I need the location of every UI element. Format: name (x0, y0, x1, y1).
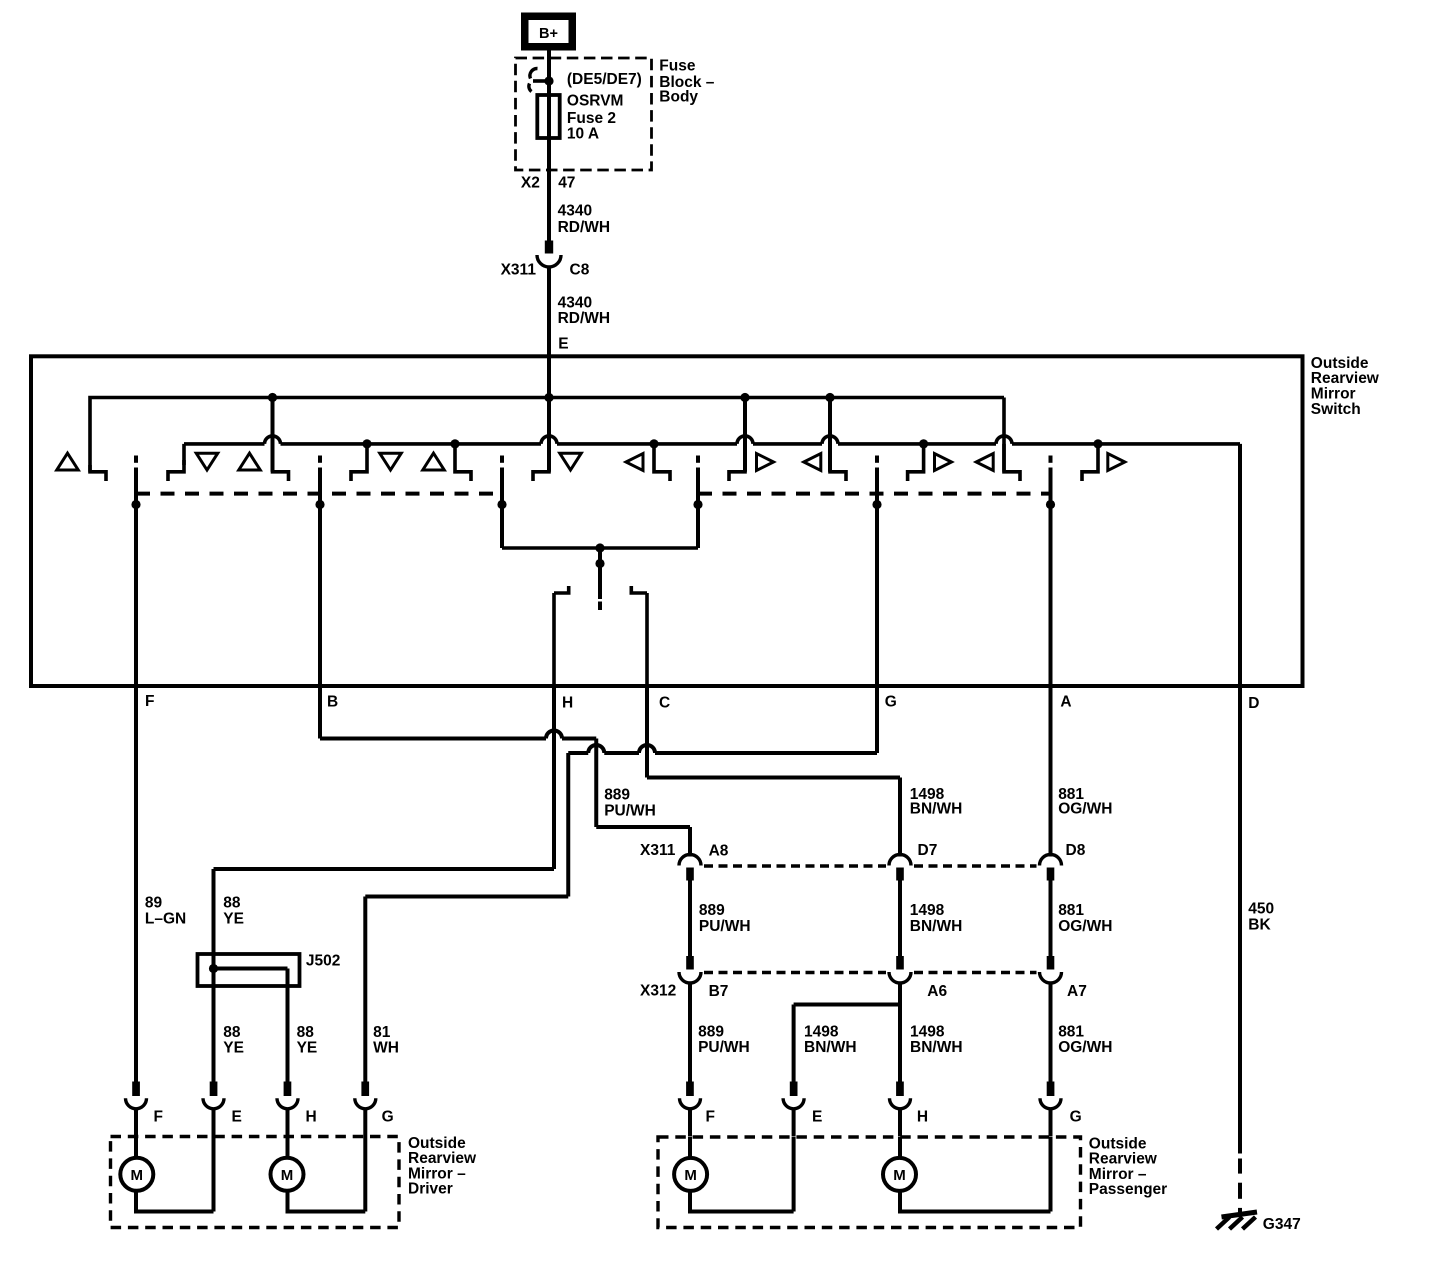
driver mirror pin E (210, 1082, 218, 1097)
driver mirror motor M1 (120, 1158, 153, 1191)
wire 1498 BN/WH D7 to A6 (898, 881, 902, 957)
svg-text:D7: D7 (918, 842, 938, 859)
driver mirror motor M2 (271, 1158, 304, 1191)
svg-text:A: A (1060, 694, 1071, 711)
svg-text:Fuse 2: Fuse 2 (567, 110, 616, 127)
direction triangle up 1 (57, 453, 79, 470)
connector X312 pin A7 (1047, 956, 1055, 970)
svg-text:PU/WH: PU/WH (699, 918, 751, 935)
passenger mirror motor M1 (674, 1158, 707, 1191)
connector X311 pin C8 (545, 241, 553, 254)
svg-text:Passenger: Passenger (1089, 1181, 1167, 1198)
svg-text:C: C (659, 694, 670, 711)
switch wiper stub x698 (696, 456, 700, 463)
junction dot second bus x367 (362, 439, 371, 448)
svg-text:F: F (154, 1108, 163, 1125)
fuse block body dashed box (516, 58, 652, 170)
svg-text:88: 88 (297, 1024, 315, 1041)
mechanical linkage dashed line right (698, 492, 1051, 496)
junction dot top bus x549 node E (544, 393, 553, 402)
connector X311 pin D7 (889, 855, 911, 866)
svg-text:YE: YE (297, 1039, 318, 1056)
connector X312 dashed body (704, 971, 886, 975)
svg-text:88: 88 (223, 895, 241, 912)
direction triangle up 3 (423, 453, 445, 470)
svg-text:F: F (706, 1108, 715, 1125)
svg-text:RD/WH: RD/WH (558, 219, 611, 236)
driver mirror motor 2 circuit (286, 1137, 290, 1158)
ground G347 (1222, 1212, 1258, 1217)
connector X311 pin D8 (1040, 855, 1062, 866)
direction triangle right 1 (757, 454, 774, 471)
svg-text:G: G (382, 1108, 394, 1125)
svg-text:D8: D8 (1066, 842, 1086, 859)
switch contact pin E feed (547, 398, 551, 472)
junction dot top bus x830 (825, 393, 834, 402)
svg-text:10 A: 10 A (567, 126, 599, 143)
svg-text:881: 881 (1058, 902, 1084, 919)
svg-text:889: 889 (698, 1023, 724, 1040)
passenger mirror pin F (686, 1082, 694, 1097)
svg-text:X311: X311 (501, 262, 537, 279)
svg-text:(DE5/DE7): (DE5/DE7) (567, 71, 642, 88)
driver mirror pin G (361, 1082, 369, 1097)
connector X312 pin B7 (686, 956, 694, 970)
svg-text:WH: WH (373, 1039, 399, 1056)
fuse holder clip symbol (530, 68, 538, 78)
switch contact x272 (271, 398, 275, 472)
switch contact x830 (828, 398, 832, 472)
switch contact x745 (743, 398, 747, 472)
wire B+ to fuse (547, 51, 551, 96)
svg-text:G: G (885, 694, 897, 711)
svg-text:889: 889 (699, 902, 725, 919)
splice J502 (198, 954, 300, 986)
common contact C (630, 586, 648, 686)
svg-text:M: M (281, 1167, 294, 1184)
svg-text:1498: 1498 (804, 1023, 839, 1040)
junction dot second bus x654 (649, 439, 658, 448)
svg-text:X311: X311 (640, 842, 676, 859)
direction triangle down 3 (380, 453, 402, 470)
switch contact x455 (455, 444, 471, 481)
svg-text:A7: A7 (1067, 983, 1087, 1000)
wire C 1498 BN/WH to X311 D7 (645, 686, 649, 778)
svg-text:G: G (1070, 1108, 1082, 1125)
svg-text:M: M (893, 1167, 906, 1184)
passenger mirror motor 1 circuit (688, 1137, 692, 1158)
direction triangle right 2 (935, 454, 952, 471)
svg-text:BN/WH: BN/WH (910, 1039, 963, 1056)
junction dot second bus x1098 (1093, 439, 1102, 448)
svg-text:RD/WH: RD/WH (558, 310, 611, 327)
direction triangle right 3 (1108, 454, 1125, 471)
svg-text:Fuse: Fuse (659, 58, 696, 75)
switch contact from top bus left end (90, 465, 106, 481)
junction dot second bus x923 (919, 439, 928, 448)
wire D 450 BK to ground (1238, 686, 1242, 1154)
switch wiper stub x502 (500, 456, 504, 463)
svg-text:H: H (562, 694, 573, 711)
svg-text:G347: G347 (1263, 1216, 1301, 1233)
direction triangle up 2 (239, 453, 261, 470)
svg-text:PU/WH: PU/WH (604, 803, 656, 820)
direction triangle left 2 (804, 454, 821, 471)
power feed B+ battery symbol (521, 13, 576, 51)
svg-text:47: 47 (558, 174, 575, 191)
wire A 881 OG/WH to X311 D8 (1049, 686, 1053, 857)
driver mirror dashed box (111, 1137, 400, 1228)
switch contact x923 (908, 444, 924, 481)
svg-text:H: H (306, 1108, 317, 1125)
svg-text:H: H (917, 1108, 928, 1125)
svg-text:Switch: Switch (1311, 401, 1361, 418)
switch contact x654 (654, 444, 670, 481)
switch wiper stub x320 (318, 456, 322, 463)
junction on fuse feed (544, 76, 553, 85)
svg-text:F: F (145, 693, 154, 710)
svg-text:E: E (558, 336, 568, 353)
svg-text:C8: C8 (570, 262, 590, 279)
svg-text:889: 889 (604, 787, 630, 804)
passenger mirror pin G (1047, 1082, 1055, 1097)
connector X311 pin A8 (679, 855, 701, 866)
switch top bus (90, 398, 1004, 472)
common wiper bar (502, 546, 698, 550)
svg-text:J502: J502 (306, 953, 340, 970)
wire 1498 BN/WH A6 branch (898, 983, 902, 1082)
mechanical linkage dashed line left (136, 492, 502, 496)
svg-text:YE: YE (223, 910, 244, 927)
junction dot top bus x745 (740, 393, 749, 402)
wire G 81 WH (875, 686, 879, 753)
wire H 88 YE to splice J502 (552, 686, 556, 869)
svg-text:A8: A8 (709, 842, 729, 859)
svg-text:4340: 4340 (558, 294, 592, 311)
svg-text:BK: BK (1248, 916, 1271, 933)
switch contact second bus left end (182, 444, 186, 465)
direction triangle down 2 (196, 453, 218, 470)
direction triangle down 4 (560, 453, 582, 470)
junction dot top bus x272 (268, 393, 277, 402)
svg-text:Driver: Driver (408, 1181, 453, 1198)
direction triangle left 3 (976, 454, 993, 471)
wire 881 OG/WH D8 to A7 (1049, 881, 1053, 957)
svg-text:X2: X2 (521, 174, 540, 191)
wire 88 YE to driver pin H (286, 969, 290, 1082)
wire 881 OG/WH to passenger pin G (1049, 983, 1053, 1082)
svg-text:B: B (327, 693, 338, 710)
wire 889 PU/WH A8 to B7 (688, 881, 692, 957)
svg-text:OG/WH: OG/WH (1058, 1039, 1112, 1056)
wire fuse output 4340 RD/WH (547, 81, 551, 241)
switch wiper stub x877 (875, 456, 879, 463)
switch second bus (184, 442, 265, 446)
passenger mirror pin H (896, 1082, 904, 1097)
svg-text:BN/WH: BN/WH (910, 918, 963, 935)
junction dot second bus x455 (450, 439, 459, 448)
wire B to X311 A8 889 PU/WH (318, 686, 322, 739)
svg-text:881: 881 (1058, 1023, 1084, 1040)
fuse OSRVM Fuse 2 10A (537, 95, 559, 138)
passenger mirror pin E (790, 1082, 798, 1097)
wire D inside box (1238, 444, 1242, 686)
wire 889 PU/WH to passenger pin F (688, 983, 692, 1082)
passenger mirror motor 2 circuit (898, 1137, 902, 1158)
svg-text:X312: X312 (640, 982, 676, 999)
wire 4340 RD/WH to switch pin E (547, 267, 551, 398)
driver mirror motor 1 circuit (134, 1137, 138, 1158)
svg-text:YE: YE (223, 1039, 244, 1056)
svg-text:4340: 4340 (558, 203, 592, 220)
svg-text:81: 81 (373, 1024, 391, 1041)
switch contact x1098 (1082, 444, 1098, 481)
svg-text:A6: A6 (927, 983, 947, 1000)
switch contact from top bus right end (1002, 398, 1006, 472)
svg-text:1498: 1498 (910, 1023, 945, 1040)
wire F 89 L-GN (134, 686, 138, 1082)
switch wiper stub x136 (134, 456, 138, 463)
common wiper arm (598, 548, 602, 599)
svg-text:BN/WH: BN/WH (804, 1039, 857, 1056)
switch wiper stub x1050.5 (1049, 456, 1053, 463)
svg-text:B+: B+ (539, 26, 558, 42)
driver mirror pin F (132, 1082, 140, 1097)
svg-text:M: M (684, 1167, 697, 1184)
driver mirror pin H (284, 1082, 292, 1097)
svg-text:Body: Body (659, 89, 698, 106)
connector X312 pin A6 (896, 956, 904, 970)
svg-text:E: E (812, 1108, 822, 1125)
svg-text:PU/WH: PU/WH (698, 1039, 750, 1056)
svg-text:OG/WH: OG/WH (1058, 801, 1112, 818)
svg-text:89: 89 (145, 895, 163, 912)
svg-text:450: 450 (1248, 900, 1274, 917)
junction dot on wiper bar (595, 543, 604, 552)
svg-text:L–GN: L–GN (145, 910, 186, 927)
common contact H (554, 586, 571, 686)
svg-text:88: 88 (223, 1024, 241, 1041)
wire 88 YE to driver pin E (212, 969, 216, 1082)
direction triangle left 1 (626, 454, 643, 471)
passenger mirror motor M2 (883, 1158, 916, 1191)
svg-text:1498: 1498 (910, 902, 945, 919)
outside rearview mirror switch box (31, 356, 1303, 686)
connector X311 dashed body (704, 864, 886, 868)
svg-text:OG/WH: OG/WH (1058, 918, 1112, 935)
svg-text:D: D (1248, 695, 1259, 712)
svg-text:M: M (131, 1167, 144, 1184)
passenger mirror dashed box (658, 1137, 1081, 1228)
svg-text:OSRVM: OSRVM (567, 93, 624, 110)
svg-text:B7: B7 (709, 983, 729, 1000)
svg-text:E: E (232, 1108, 242, 1125)
switch contact x367 (351, 444, 367, 481)
svg-text:BN/WH: BN/WH (910, 801, 963, 818)
